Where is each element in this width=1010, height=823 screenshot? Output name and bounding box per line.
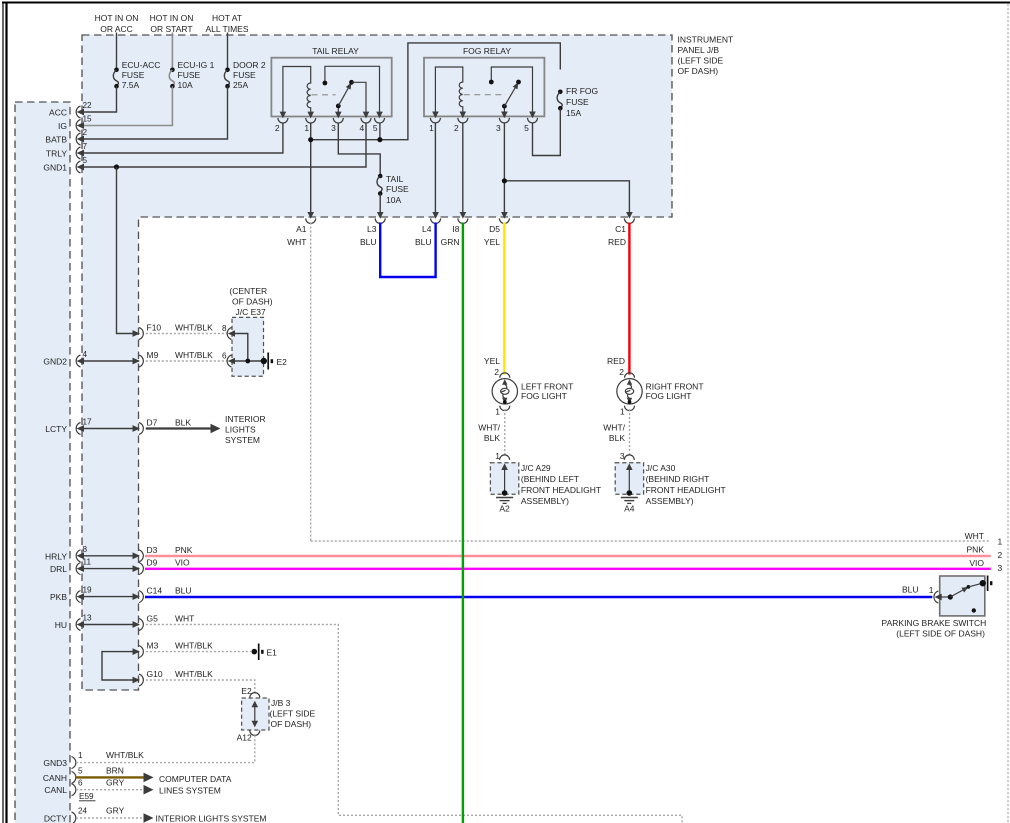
fog relay pin 1 connector [430,112,440,123]
svg-text:TAIL RELAY: TAIL RELAY [312,46,359,56]
wire fuse1 to ACC pin [80,86,117,112]
svg-text:RED: RED [608,237,626,247]
node GND1 junction [114,164,119,169]
svg-text:I8: I8 [452,224,459,234]
svg-text:19: 19 [83,586,93,595]
ground E1 [252,644,278,661]
svg-text:D5: D5 [489,224,500,234]
arrow D7 to interior lights system [211,424,221,434]
svg-text:ECU-IG 1: ECU-IG 1 [178,60,215,70]
wire fuse2 feed (gray) [171,33,173,70]
ECU pin labels column [43,108,67,823]
wire tail relay pin1 rail to fog feed [311,43,561,217]
svg-text:FOG LIGHT: FOG LIGHT [646,391,692,401]
tail relay pin numbers [275,123,378,133]
wire M3 WHT/BLK to E1 [146,651,251,653]
svg-text:2: 2 [275,123,280,133]
svg-text:GRY: GRY [106,778,125,788]
tail relay coil (pins 2-1) [283,67,311,117]
svg-text:6: 6 [222,352,227,361]
svg-text:FR FOG: FR FOG [566,86,598,96]
tail relay contact rail to pin 5 [325,66,380,116]
svg-text:HOT IN ON: HOT IN ON [150,13,194,23]
E37 internal wires [234,334,264,362]
svg-text:OR START: OR START [150,24,192,34]
pin PKB 19 [76,586,92,603]
svg-text:1: 1 [304,123,309,133]
J/B column exit connector G5 [133,614,195,631]
svg-text:BATB: BATB [45,135,67,145]
svg-text:FUSE: FUSE [566,97,589,107]
pin GND3 1 [72,751,84,768]
svg-text:7.5A: 7.5A [122,80,140,90]
wire C1 RED vertical [628,223,630,375]
svg-text:FOG RELAY: FOG RELAY [463,46,511,56]
svg-text:TRLY: TRLY [46,149,67,159]
node tail pin1 junction [308,137,313,142]
wire HRLY row [80,555,139,557]
svg-text:LEFT FRONT: LEFT FRONT [521,381,573,391]
fog relay coil (pins 1-2) [435,67,462,116]
svg-text:GND3: GND3 [43,758,67,768]
svg-text:ASSEMBLY): ASSEMBLY) [646,496,694,506]
pin ACC 22 [76,101,92,118]
pin LCTY 17 [76,418,92,435]
svg-text:BLU: BLU [902,585,919,595]
pin GND2 4 [76,350,87,367]
label HOT IN ON OR START [150,13,194,34]
ground E2 at E37 [261,353,288,370]
connector A1 at J/B edge [287,212,316,247]
svg-text:PARKING BRAKE SWITCH: PARKING BRAKE SWITCH [882,618,987,628]
svg-text:GRN: GRN [441,237,460,247]
svg-text:CANL: CANL [44,785,67,795]
svg-text:3: 3 [496,123,501,133]
svg-text:G5: G5 [147,614,159,624]
label CANH BRN [106,765,124,775]
ground A2 [496,498,513,514]
connector C1 at J/B edge [608,212,634,247]
svg-text:(LEFT SIDE: (LEFT SIDE [678,56,724,66]
fog relay contact rail to pin 5 [491,67,532,116]
wire BLU row to parking brake switch [145,596,932,598]
svg-text:YEL: YEL [484,356,500,366]
wire D5 YEL vertical [503,223,506,375]
svg-text:(LEFT SIDE: (LEFT SIDE [270,709,316,719]
wire GND2 row [80,360,139,362]
label BLU pin 1 [902,585,934,596]
tail relay armature arrowhead [346,81,354,89]
svg-text:J/B 3: J/B 3 [271,698,291,708]
page border top line [2,2,1010,4]
svg-text:G10: G10 [147,669,163,679]
svg-text:2: 2 [83,128,88,137]
pin CANH 5 [72,766,84,783]
wire PKB row [80,596,139,598]
svg-text:A4: A4 [624,504,635,514]
svg-text:BLK: BLK [609,433,625,443]
pin GND1 5 [76,156,87,173]
wire fuse3 feed [227,33,229,70]
wire G5 WHT routing [146,625,682,823]
svg-text:INSTRUMENT: INSTRUMENT [678,35,734,45]
label DCTY GRY [106,806,125,816]
svg-text:INTERIOR: INTERIOR [225,414,266,424]
svg-text:M3: M3 [147,641,159,651]
svg-text:IG: IG [58,121,67,131]
wire fuse1 feed [116,33,118,70]
connector I8 at J/B edge [441,212,468,247]
svg-text:WHT/BLK: WHT/BLK [175,350,213,360]
fog relay pin 3 connector [499,112,509,123]
label J/C A30 (BEHIND RIGHT FRONT HEADLIGHT ASSEMBLY) [646,463,726,506]
svg-text:DRL: DRL [50,564,67,574]
wire DCTY GRY [76,817,145,819]
svg-text:WHT/: WHT/ [603,423,625,433]
fog relay pivot node [502,104,507,109]
svg-text:GRY: GRY [106,806,125,816]
connector D5 at J/B edge [484,212,509,247]
svg-text:2: 2 [494,367,499,377]
pin DCTY 24 [72,807,88,823]
J/B column exit connector D7 [133,418,192,435]
label HOT IN ON OR ACC [95,13,139,34]
svg-text:6: 6 [78,779,83,788]
parking brake switch open contact node [972,608,976,612]
label PNK row 2 [967,544,1003,560]
J/B column exit connector D9 [133,558,191,575]
svg-text:15: 15 [83,115,93,124]
svg-text:5: 5 [373,123,378,133]
lamp RIGHT FRONT FOG LIGHT [607,356,703,417]
wire PNK row 2 [145,555,991,557]
svg-text:COMPUTER DATA: COMPUTER DATA [159,774,232,784]
svg-text:LIGHTS: LIGHTS [225,425,256,435]
label left WHT/BLK [478,423,500,444]
svg-text:FUSE: FUSE [233,70,256,80]
svg-text:GND2: GND2 [43,357,67,367]
svg-text:M9: M9 [147,350,159,360]
svg-text:HOT AT: HOT AT [212,13,242,23]
svg-text:2: 2 [998,550,1003,560]
wire GND3 WHT/BLK to A12 [76,735,255,762]
parking brake switch arm arrowhead [961,584,969,592]
fuse FR FOG 15A [557,86,598,118]
label INTERIOR LIGHTS SYSTEM (LCTY) [225,414,266,445]
parking brake switch contact node [948,594,953,599]
svg-text:1: 1 [998,536,1003,546]
svg-text:1: 1 [929,585,934,595]
wire F10 WHT/BLK to E37 [146,333,227,335]
svg-text:WHT: WHT [175,614,194,624]
wire tail relay pin3 via TAIL fuse to L3 [338,123,380,176]
wire fog relay pin1 to L4 [434,123,436,218]
connector L4 at J/B edge [415,212,441,247]
arrow DCTY [144,813,154,823]
svg-text:WHT/: WHT/ [478,423,500,433]
pin BATB 2 [76,128,87,145]
page border left thin line [2,2,4,823]
svg-text:10A: 10A [178,80,193,90]
pin IG 15 [76,115,92,132]
pin HRLY 8 [76,545,87,562]
fog relay pin 5 connector [528,112,538,123]
connector L3 at J/B edge [360,212,385,247]
svg-text:RED: RED [607,356,625,366]
svg-text:3: 3 [998,563,1003,573]
J/B column exit connector C14 [133,586,192,603]
pin CANL 6 [72,779,84,796]
wire left fog light WHT/BLK [504,409,506,457]
svg-text:FUSE: FUSE [122,70,145,80]
label J/B 3 (LEFT SIDE OF DASH) [270,698,316,729]
junction box J/B 3 [242,693,269,736]
parking brake switch internal wire [941,596,950,598]
fog relay armature arrowhead [513,81,521,90]
tail relay pivot node [336,104,341,109]
svg-text:D9: D9 [147,558,158,568]
svg-text:L4: L4 [422,224,432,234]
svg-text:BRN: BRN [106,765,124,775]
wire LCTY row [80,428,139,430]
svg-text:(BEHIND LEFT: (BEHIND LEFT [521,474,579,484]
arrow CANH [144,773,154,783]
wire A1 WHT vertical [310,223,312,542]
wire L3-L4 BLU jumper [380,223,435,278]
E37 entry 6 [222,352,235,368]
svg-text:24: 24 [78,807,88,816]
pin DRL 11 [76,558,91,575]
svg-text:FRONT HEADLIGHT: FRONT HEADLIGHT [646,485,726,495]
page border left thick line [5,2,7,823]
svg-text:PKB: PKB [50,592,67,602]
parking brake switch case ground [980,576,993,592]
node fog pin3 junction [502,178,507,183]
wire WHT row 1 [311,540,991,542]
svg-text:13: 13 [83,614,93,623]
svg-text:OF DASH): OF DASH) [678,66,719,76]
svg-text:ACC: ACC [49,108,67,118]
wire fog relay pin2 to I8 [462,123,464,218]
svg-text:HOT IN ON: HOT IN ON [95,13,139,23]
label right WHT/BLK [603,423,625,444]
label (CENTER OF DASH) J/C E37 [229,286,272,317]
label COMPUTER DATA LINES SYSTEM [159,774,232,796]
relay FOG RELAY box [424,58,544,117]
junction connector J/C A29 [490,455,518,496]
fog relay pivot stub pin 3 [503,106,505,116]
svg-text:8: 8 [83,545,88,554]
wire CANH BRN [76,776,145,778]
svg-text:5: 5 [83,156,88,165]
svg-text:25A: 25A [233,80,248,90]
J/B column exit connector G10 [133,669,214,686]
svg-text:C1: C1 [615,224,626,234]
label PARKING BRAKE SWITCH [882,618,987,639]
svg-text:J/C E37: J/C E37 [236,307,267,317]
J/B title text [678,35,734,77]
label WHT row 1 [965,531,1003,547]
svg-text:11: 11 [83,558,92,567]
svg-text:3: 3 [331,123,336,133]
svg-text:5: 5 [78,766,83,775]
tail relay fixed contact node [323,81,328,86]
svg-text:WHT: WHT [287,237,306,247]
svg-text:DCTY: DCTY [44,814,67,823]
svg-text:WHT/BLK: WHT/BLK [175,641,213,651]
tail relay pivot stub pin 3 [337,106,339,117]
svg-text:1: 1 [620,407,625,417]
tail relay moving contact node [349,80,354,85]
fog relay armature arm [504,84,517,106]
svg-text:YEL: YEL [484,237,500,247]
svg-text:A12: A12 [237,733,252,743]
fuse ECU-ACC 7.5A [113,60,160,90]
svg-text:D7: D7 [147,418,158,428]
svg-text:A2: A2 [499,504,510,514]
wire G10 WHT/BLK to J/B3 [146,680,255,693]
tail relay pin 3 connector [333,112,343,123]
wire D7 BLK [146,427,211,429]
pin TRLY 7 [76,142,87,159]
fog relay moving contact node [516,80,521,85]
svg-text:F10: F10 [147,323,162,333]
fog relay pin 2 connector [458,112,468,123]
svg-text:4: 4 [83,350,88,359]
svg-text:WHT/BLK: WHT/BLK [175,669,213,679]
svg-text:VIO: VIO [175,558,190,568]
lamp LEFT FRONT FOG LIGHT [484,356,573,417]
tail relay pin 5 connector [375,112,385,123]
pin HU 13 [76,614,92,631]
svg-text:E1: E1 [267,648,278,658]
fog relay mechanical link dashed [464,94,506,96]
svg-text:PNK: PNK [967,544,985,554]
svg-text:(LEFT SIDE OF DASH): (LEFT SIDE OF DASH) [896,629,985,639]
svg-text:PNK: PNK [175,545,193,555]
svg-text:2: 2 [619,367,624,377]
fog relay fixed contact node [489,80,494,85]
svg-text:15A: 15A [566,108,581,118]
label CANL GRY [106,778,125,788]
wire TAIL fuse to L3 connector [379,194,381,218]
J/B column exit connector M9 [133,350,214,367]
svg-text:J/C A29: J/C A29 [521,463,551,473]
svg-text:LCTY: LCTY [45,424,67,434]
svg-text:1: 1 [495,407,500,417]
J/B column exit connector F10 [133,323,214,340]
label GND3 wire [106,750,144,760]
instrument panel J/B shaded region [82,35,672,690]
svg-text:FOG LIGHT: FOG LIGHT [521,391,567,401]
wire tail relay pin5 to rail [379,123,381,140]
svg-text:10A: 10A [386,195,401,205]
svg-text:FUSE: FUSE [178,70,201,80]
svg-text:D3: D3 [147,545,158,555]
svg-text:WHT/BLK: WHT/BLK [175,323,213,333]
svg-text:BLU: BLU [360,237,377,247]
svg-text:DOOR 2: DOOR 2 [233,60,266,70]
svg-text:OF DASH): OF DASH) [271,719,312,729]
parking brake switch wire to case ground [968,583,981,587]
fuse TAIL 10A [377,174,409,205]
junction connector J/C A30 [615,455,643,496]
wire GND1 junction down to F10 [117,167,139,334]
parking brake switch pin 1 connector [934,591,942,603]
wire fog relay pin3 to D5 and C1 [504,123,629,218]
svg-text:LINES SYSTEM: LINES SYSTEM [159,786,221,796]
wire FR FOG fuse to fog relay pin 5 [533,108,561,155]
svg-text:J/C A30: J/C A30 [646,463,676,473]
node E37 junction [245,359,250,364]
svg-text:TAIL: TAIL [386,174,404,184]
wire DRL row [80,568,139,570]
wire VIO row 3 [145,568,991,570]
svg-text:VIO: VIO [969,558,984,568]
svg-text:(BEHIND RIGHT: (BEHIND RIGHT [646,474,710,484]
ground A4 [621,498,638,514]
tail relay pin 4 connector [361,112,371,123]
svg-text:ASSEMBLY): ASSEMBLY) [521,496,569,506]
relay TAIL RELAY box [271,58,391,117]
page border right dotted line [1007,4,1009,823]
E37 entry 8 [222,324,235,340]
node tail pin5 junction [377,137,382,142]
tail relay contact to pin 4 [352,82,367,116]
svg-text:A1: A1 [296,224,307,234]
wire GND1 to tail relay pin 4 [80,123,366,168]
svg-text:BLU: BLU [415,237,432,247]
svg-text:HU: HU [55,620,67,630]
label HOT AT ALL TIMES [206,13,249,34]
tail relay pin 1 connector [306,112,316,123]
svg-text:1: 1 [429,123,434,133]
svg-text:SYSTEM: SYSTEM [225,435,260,445]
tail relay armature arm [338,85,350,106]
switch PARKING BRAKE SWITCH box [940,576,985,616]
label VIO row 3 [969,558,1002,573]
label J/C A29 (BEHIND LEFT FRONT HEADLIGHT ASSEMBLY) [521,463,601,506]
svg-text:ECU-ACC: ECU-ACC [122,60,161,70]
wire CANL GRY [76,789,145,791]
wire M3-G10 internal loop [102,652,139,680]
svg-text:INTERIOR LIGHTS SYSTEM: INTERIOR LIGHTS SYSTEM [156,814,267,823]
svg-text:FRONT HEADLIGHT: FRONT HEADLIGHT [521,485,601,495]
junction connector J/C E37 box [232,317,264,376]
J/B column exit connector D3 [133,545,193,562]
tail relay pin 2 connector [278,112,288,123]
fuse DOOR 2 25A [224,60,266,90]
svg-text:OF DASH): OF DASH) [232,297,273,307]
svg-text:FUSE: FUSE [386,184,409,194]
svg-text:WHT/BLK: WHT/BLK [106,750,144,760]
svg-text:L3: L3 [367,224,377,234]
svg-text:C14: C14 [147,586,163,596]
svg-text:BLU: BLU [175,586,192,596]
tail relay mechanical link dashed [312,94,336,96]
fuse ECU-IG 1 10A [169,60,214,90]
svg-text:BLK: BLK [175,418,191,428]
svg-text:HRLY: HRLY [45,551,67,561]
svg-text:E59: E59 [79,792,94,801]
svg-text:RIGHT FRONT: RIGHT FRONT [646,381,704,391]
wire right fog light WHT/BLK [629,409,631,457]
wire fuse3 to BATB pin [80,86,228,139]
svg-text:8: 8 [222,324,227,333]
svg-text:7: 7 [83,142,88,151]
J/B column exit connector M3 [133,641,214,658]
svg-text:(CENTER: (CENTER [229,286,267,296]
